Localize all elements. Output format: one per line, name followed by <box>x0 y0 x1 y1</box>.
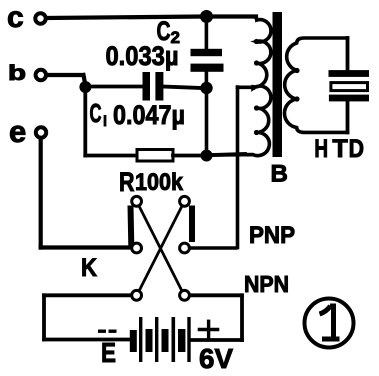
svg-text:R: R <box>119 167 135 197</box>
wire C1 to node <box>164 87 202 89</box>
wire center tap of primary <box>238 87 254 248</box>
wire mid-right contact to tap line <box>191 246 236 250</box>
wire bottom-left contact to battery minus <box>44 295 131 339</box>
capacitor C2 <box>191 20 224 86</box>
node: junction dot bottom rail <box>201 150 213 162</box>
label HTD <box>314 135 364 163</box>
label R100k <box>119 167 184 197</box>
svg-text:0.033µ: 0.033µ <box>106 41 179 71</box>
svg-text:T: T <box>332 135 347 163</box>
switch contact top-right <box>180 196 190 206</box>
wire c to node <box>47 17 201 19</box>
label C2 <box>157 16 180 47</box>
resistor R <box>137 150 173 162</box>
svg-text:100k: 100k <box>135 169 184 196</box>
node: junction dot b <box>79 81 91 93</box>
transformer secondary winding <box>284 38 347 132</box>
svg-text:H: H <box>314 135 328 163</box>
node: junction dot right of C1 <box>200 82 212 94</box>
svg-text:e: e <box>9 114 26 149</box>
svg-text:b: b <box>8 62 26 85</box>
wire e down to switch <box>41 138 129 248</box>
wire b node down to bottom rail <box>83 91 87 156</box>
figure number 1 circled <box>305 299 354 348</box>
switch contact mid-left <box>132 243 142 253</box>
transformer primary winding <box>211 17 271 156</box>
svg-text:NPN: NPN <box>244 271 289 297</box>
terminal b <box>8 62 46 85</box>
svg-text:C: C <box>90 98 102 128</box>
node: junction dot on c wire <box>200 10 213 23</box>
switch contact bottom-left <box>132 290 142 300</box>
wire resistor to node <box>173 154 202 158</box>
svg-text:PNP: PNP <box>249 222 295 249</box>
wire secondary to earphone top <box>346 38 350 71</box>
label plus <box>200 321 218 338</box>
switch K blade right <box>189 206 195 243</box>
wire node to transformer top <box>211 14 256 18</box>
switch contact mid-right <box>180 243 190 253</box>
wire b to node <box>47 75 85 85</box>
svg-text:6V: 6V <box>199 343 233 374</box>
switch K blade left <box>128 206 135 246</box>
wire node b to C1 <box>90 85 143 89</box>
terminal c <box>7 1 46 34</box>
capacitor C1 <box>143 72 164 101</box>
wire vertical node to node <box>205 88 209 156</box>
switch contact top-left <box>132 196 142 206</box>
label minus <box>98 330 117 333</box>
svg-text:c: c <box>7 1 24 34</box>
terminal e <box>9 114 46 149</box>
switch contact bottom-right <box>180 290 190 300</box>
svg-text:D: D <box>349 135 364 163</box>
wire secondary to earphone bottom <box>346 100 350 132</box>
label C1 <box>90 98 107 128</box>
svg-text:0.047µ: 0.047µ <box>113 100 185 130</box>
battery E cells <box>130 317 191 362</box>
switch K crossed wires <box>138 204 183 293</box>
wire node to transformer bottom <box>211 154 245 155</box>
transformer core B <box>273 12 283 157</box>
svg-text:E: E <box>101 337 116 368</box>
wire bottom-right contact to battery plus <box>190 295 242 340</box>
svg-text:K: K <box>81 254 97 282</box>
wire bottom rail left <box>85 154 137 158</box>
earphone HTD <box>329 70 370 101</box>
svg-text:B: B <box>271 161 288 188</box>
